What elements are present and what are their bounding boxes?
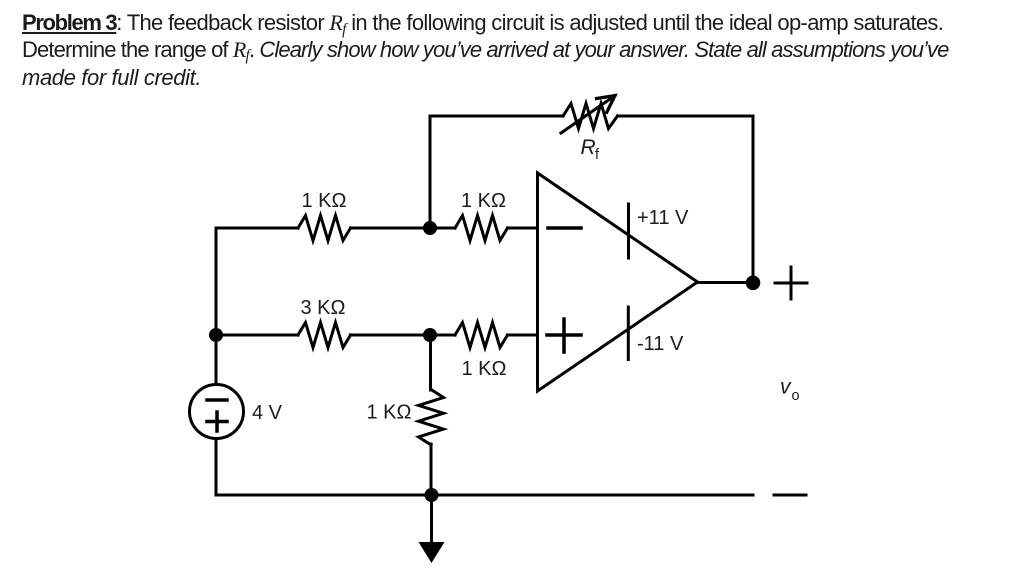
wire node B down to vertical resistor [429,335,432,390]
resistor 3 KΩ [298,323,351,348]
wire vertical resistor down to bottom rail [430,444,433,495]
wire feedback top horizontal: right of Rf [618,115,754,118]
op-amp +V supply line [627,204,630,258]
wire top row: left corner to first resistor [216,227,298,230]
svg-text:f: f [595,147,600,163]
op-amp inverting input minus [548,226,581,230]
voltage source 4 V [190,385,244,439]
svg-text:-11 V: -11 V [637,333,684,355]
wire left vertical [215,228,218,495]
node dot (op-amp output) [746,276,761,291]
svg-text:1 KΩ: 1 KΩ [302,190,347,212]
op-amp triangle [538,173,698,391]
resistor 1 KΩ (vertical to ground rail) [419,390,444,445]
svg-text:4 V: 4 V [252,402,283,424]
resistor 1 KΩ (to non-inverting input) [455,323,508,348]
wire middle row: to op-amp non-inverting input [508,334,538,337]
op-amp non-inverting input plus [547,333,581,337]
wire feedback top horizontal: left of Rf [430,115,563,118]
wire middle row: between resistors through node B [351,334,456,337]
op-amp -V supply line [627,307,630,360]
svg-text:R: R [581,136,596,159]
output plus terminal [775,282,807,285]
arrow of variable resistor Rf [561,96,615,133]
node B dot (junction 3 KΩ / 1 KΩ branches) [423,328,437,342]
wire top row: between resistors through node A [351,227,456,230]
svg-text:1 KΩ: 1 KΩ [461,190,506,212]
svg-text:3 KΩ: 3 KΩ [301,297,346,319]
svg-text:v: v [780,376,792,399]
node dot (left rail / 3 KΩ branch) [209,328,223,342]
svg-text:o: o [792,388,800,404]
resistor 1 KΩ (top left) [298,216,351,241]
wire bottom rail [216,494,753,497]
wire op-amp output [697,281,753,284]
wire feedback vertical left [429,116,432,228]
svg-text:1 KΩ: 1 KΩ [367,402,412,424]
node dot (bottom rail / ground) [425,488,439,502]
resistor Rf variable feedback [563,104,618,129]
node A dot (junction of 1 KΩ resistors and feedback) [423,221,437,235]
output minus terminal [774,494,806,497]
wire feedback vertical right [752,116,755,283]
resistor 1 KΩ (to inverting input) [455,216,508,241]
wire top row: to op-amp inverting input [508,227,538,230]
svg-text:+11 V: +11 V [637,207,689,229]
svg-text:1 KΩ: 1 KΩ [462,358,507,380]
wire middle row: left vertical to 3 KΩ resistor [216,334,298,337]
ground [430,495,433,546]
